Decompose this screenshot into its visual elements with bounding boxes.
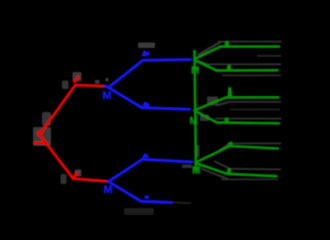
svg-text:M: M — [103, 90, 112, 102]
svg-text:M: M — [190, 116, 198, 127]
svg-text:M: M — [104, 184, 113, 196]
svg-text:M: M — [192, 166, 200, 177]
svg-text:M: M — [191, 66, 199, 77]
